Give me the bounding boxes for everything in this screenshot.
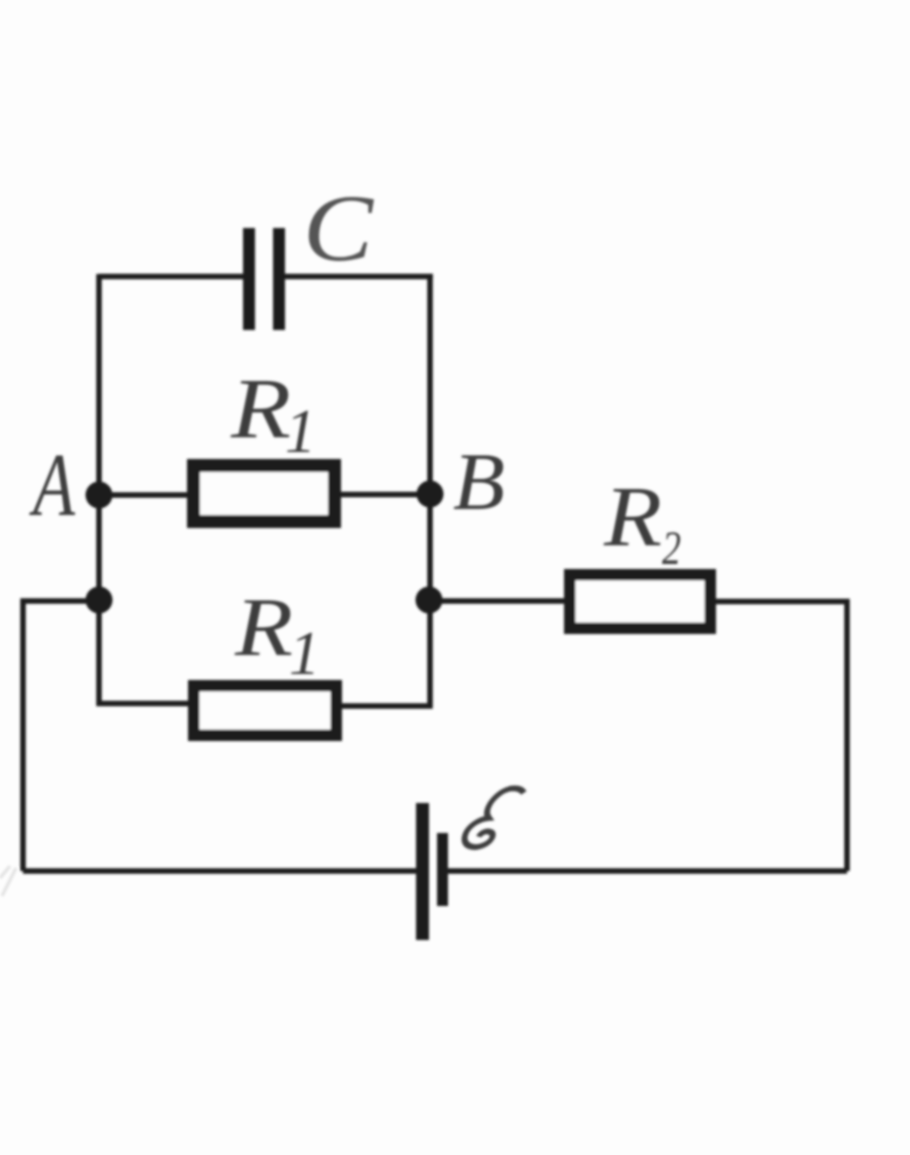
svg-text:C: C (303, 175, 375, 281)
capacitor C (right plate) (273, 228, 285, 330)
wire: resistor R2 to right outer loop, down to battery row (713, 602, 847, 872)
battery EMF source: short plate (437, 833, 448, 906)
svg-text:2: 2 (662, 522, 681, 575)
node B junction dot (417, 481, 444, 508)
capacitor C (left plate) (243, 228, 255, 330)
svg-text:A: A (29, 436, 76, 535)
resistor R2 (570, 575, 711, 629)
wire: right inner vertical (top wire through B down to lower branch corner) then to lower R1 (339, 274, 430, 706)
wire: lower-right junction to resistor R2 (429, 598, 567, 604)
svg-text:R: R (234, 581, 293, 674)
wire: bottom right (battery short plate to right outer loop) (446, 868, 847, 874)
wire: top loop left horizontal (node A column to capacitor left plate) (99, 274, 244, 280)
wire: lower-left junction out to left outer loop, down to battery row (23, 601, 99, 871)
wire: top loop right horizontal (capacitor right plate to node B column) (284, 274, 433, 280)
junction dot lower-right (416, 587, 443, 614)
svg-text:R: R (230, 360, 291, 456)
svg-text:1: 1 (285, 398, 316, 466)
faint scan artifact bottom-left (0, 866, 16, 896)
battery EMF source: long plate (416, 803, 429, 940)
wire: left inner vertical (top wire through A down to lower branch corner) then to lower R1 (99, 274, 190, 704)
wire: middle resistor R1 to node B (338, 492, 430, 498)
resistor R1 (lower branch) (194, 686, 337, 736)
svg-text:B: B (453, 436, 505, 527)
svg-text:1: 1 (289, 620, 320, 688)
wire: node A to middle resistor R1 (99, 492, 190, 498)
resistor R1 (middle, between A and B) (194, 466, 335, 522)
node A junction dot (86, 482, 113, 509)
junction dot lower-left (86, 587, 113, 614)
svg-text:R: R (603, 468, 662, 564)
wire: bottom left (outer loop to battery long plate) (23, 868, 418, 874)
label script-E (EMF) (462, 788, 525, 847)
